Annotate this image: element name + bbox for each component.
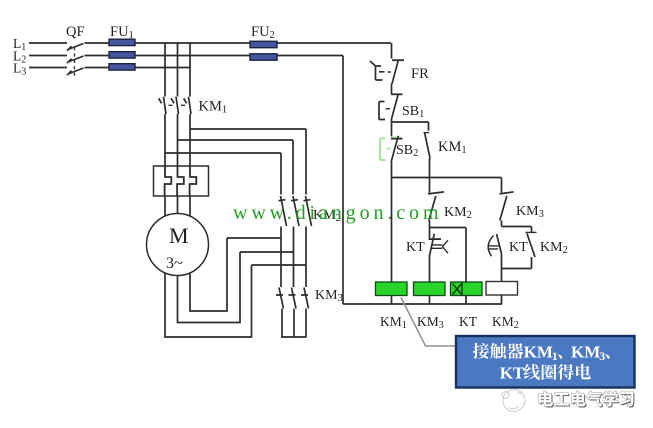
wire FR to motor xyxy=(165,196,190,216)
timer KT delayed contact (right) xyxy=(488,234,502,269)
wire motor bottom loops (U loops) xyxy=(165,238,252,337)
svg-text:1: 1 xyxy=(552,349,558,363)
contactor KM3 main contacts xyxy=(276,288,309,338)
wire KM2 aux loop top xyxy=(502,226,532,228)
wire L1 xyxy=(29,42,391,44)
svg-text:3~: 3~ xyxy=(166,255,183,272)
contactor KM1 aux NO contact xyxy=(424,122,431,178)
wire L2 xyxy=(29,55,343,57)
contactor KM1 main contacts xyxy=(159,97,191,114)
svg-text:KM: KM xyxy=(571,342,600,361)
wire phase drops xyxy=(165,42,190,96)
svg-text:QF: QF xyxy=(66,24,85,40)
footer logo xyxy=(502,390,525,412)
svg-text:3: 3 xyxy=(599,349,605,363)
contactor KM3 aux NC contact xyxy=(500,178,514,227)
wire control left (L2 drop) xyxy=(342,56,344,305)
wire KT branch xyxy=(430,228,467,283)
svg-text:KT: KT xyxy=(509,240,528,255)
svg-text:KT: KT xyxy=(500,363,525,382)
coil KM1 xyxy=(376,282,408,304)
coil KM2 xyxy=(486,282,518,305)
svg-text:M: M xyxy=(169,223,189,248)
wire branch to KM2 main (pole2) xyxy=(178,140,294,195)
timer KT delayed NO contact (left) xyxy=(429,228,449,283)
thermal relay FR heater box xyxy=(154,166,209,196)
callout leader line xyxy=(401,298,456,347)
wire L1 control drop xyxy=(391,43,393,59)
contactor KM2 aux NC contact xyxy=(428,178,444,228)
fuse FU1 xyxy=(109,39,135,70)
wire branch to KM2 main (pole1) xyxy=(165,153,281,195)
wire branch to KM2 main (pole3) xyxy=(190,129,306,195)
svg-text:www.diangon.com: www.diangon.com xyxy=(233,202,442,224)
wire L3 xyxy=(29,67,190,69)
motor M xyxy=(147,214,209,276)
svg-text:KT: KT xyxy=(459,314,478,329)
contactor KM2 aux NO contact xyxy=(526,227,537,269)
breaker QF xyxy=(67,44,84,78)
svg-text:KM: KM xyxy=(524,342,553,361)
svg-text:FR: FR xyxy=(411,66,429,82)
pushbutton SB1 (stop, NC) xyxy=(379,94,403,122)
contactor KM2 main contacts xyxy=(279,196,312,287)
wire junction to KM2 main pole2 xyxy=(240,251,293,253)
annotation box xyxy=(456,336,635,388)
wire KM1 coil drop xyxy=(391,178,393,283)
coil KM3 xyxy=(414,282,446,304)
wire KM1 to FR box xyxy=(165,114,190,166)
thermal relay FR NC contact xyxy=(370,60,404,94)
fuse FU2 xyxy=(250,41,277,60)
wire KM2 aux loop bottom xyxy=(502,269,532,282)
coil KT xyxy=(451,282,483,304)
wire KM3 star short bar xyxy=(281,336,307,338)
wire coil bottom bus xyxy=(343,303,502,305)
footer text 电工电气学习 xyxy=(539,391,635,408)
wire SB1 node to KM1 aux xyxy=(392,121,429,123)
pushbutton SB2 (start, NO, highlighted) xyxy=(380,122,403,178)
wire junction to KM2 main pole1 xyxy=(227,237,281,239)
wire node line xyxy=(392,177,502,179)
svg-text:KT: KT xyxy=(406,240,425,255)
wire junction to KM2 main pole3 xyxy=(252,264,307,266)
